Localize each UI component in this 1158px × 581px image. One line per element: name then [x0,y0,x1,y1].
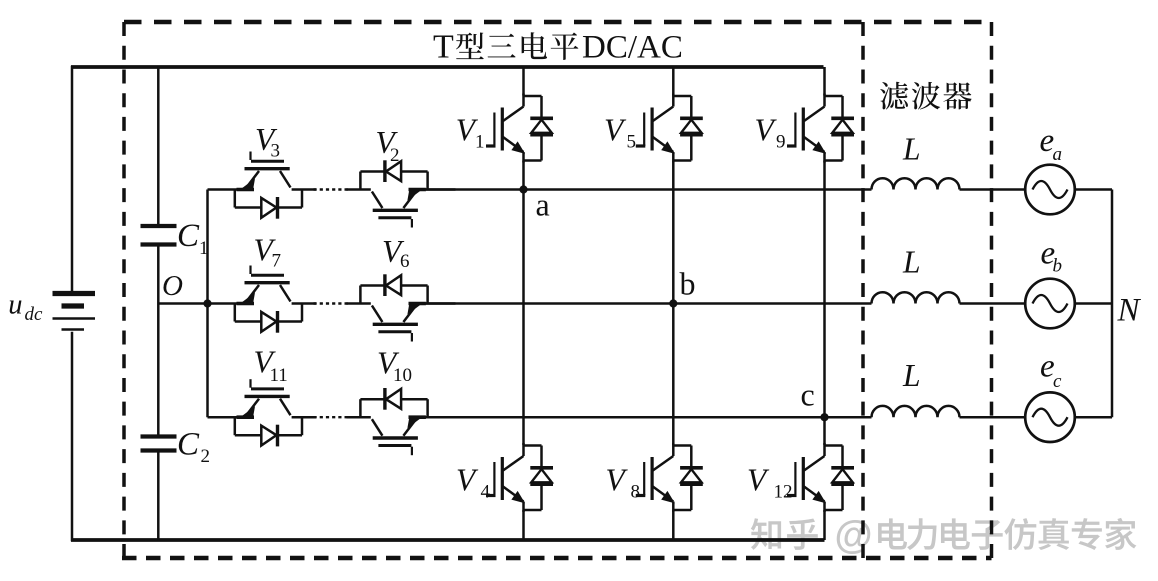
svg-text:8: 8 [631,482,641,503]
svg-text:N: N [1117,293,1142,329]
svg-text:3: 3 [271,141,281,162]
svg-text:L: L [902,132,921,167]
svg-text:10: 10 [393,365,412,386]
svg-text:C: C [177,427,200,463]
svg-text:O: O [162,270,183,302]
svg-text:2: 2 [390,145,400,166]
svg-text:C: C [177,218,200,254]
svg-text:5: 5 [627,132,637,153]
svg-text:c: c [1053,371,1062,392]
svg-text:9: 9 [776,132,786,153]
svg-text:a: a [1053,144,1063,165]
svg-text:c: c [801,377,815,413]
svg-text:4: 4 [481,482,491,503]
svg-text:L: L [902,245,921,280]
svg-text:T: T [433,29,454,66]
svg-text:1: 1 [475,132,485,153]
svg-text:7: 7 [272,251,282,272]
svg-text:b: b [1053,256,1063,277]
svg-text:L: L [902,358,921,393]
svg-text:6: 6 [400,251,410,272]
svg-text:dc: dc [25,304,44,325]
svg-text:12: 12 [774,482,793,503]
svg-text:1: 1 [199,238,209,259]
svg-text:DC/AC: DC/AC [582,30,683,66]
svg-text:u: u [8,290,22,321]
svg-text:11: 11 [270,365,288,386]
svg-text:a: a [536,187,550,223]
svg-text:@: @ [835,514,873,557]
svg-text:b: b [680,266,696,302]
svg-text:2: 2 [201,446,211,467]
